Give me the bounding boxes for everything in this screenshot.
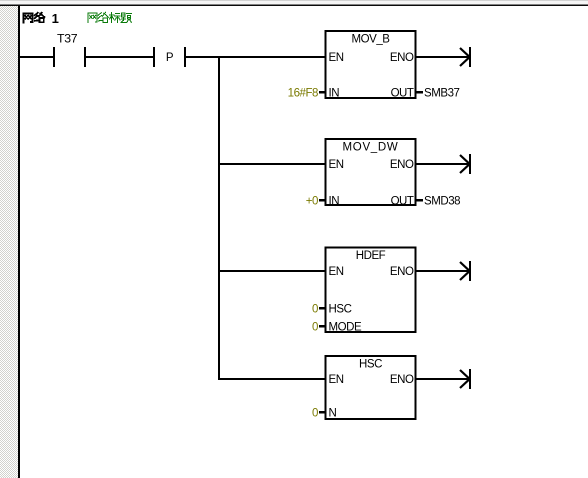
left power rail bbox=[18, 6, 20, 478]
svg-text:MOV_B: MOV_B bbox=[351, 33, 390, 45]
svg-text:P: P bbox=[166, 52, 174, 64]
svg-text:OUT: OUT bbox=[391, 195, 414, 207]
junction branch wire (vertical) bbox=[218, 56, 220, 380]
contact P (positive edge) bbox=[153, 47, 186, 67]
pin stub U4 N bbox=[319, 411, 325, 414]
svg-text:HSC: HSC bbox=[329, 303, 352, 315]
络 bbox=[35, 13, 38, 21]
svg-text:1: 1 bbox=[52, 11, 59, 26]
svg-text:ENO: ENO bbox=[390, 52, 414, 64]
wire: branch to HSC EN bbox=[220, 378, 325, 380]
block U2 MOV_DW bbox=[326, 139, 416, 207]
contact T37 bbox=[53, 32, 86, 67]
svg-text:MOV_DW: MOV_DW bbox=[343, 141, 399, 153]
value +0 on U2 IN bbox=[306, 195, 318, 207]
rung 4 continuation arrow bbox=[460, 369, 471, 389]
network header: 网络 1 (bold black) bbox=[23, 13, 44, 23]
value 0 on U3 HSC bbox=[312, 303, 318, 315]
block U3 HDEF bbox=[326, 248, 416, 334]
svg-text:0: 0 bbox=[312, 407, 318, 419]
wire: branch to HDEF EN bbox=[220, 270, 325, 272]
network title text: 网络标题 (green) bbox=[88, 12, 132, 22]
svg-text:ENO: ENO bbox=[390, 266, 414, 278]
value 0 on U3 MODE bbox=[312, 321, 318, 333]
svg-text:0: 0 bbox=[312, 321, 318, 333]
svg-text:OUT: OUT bbox=[391, 87, 414, 99]
wire: T37 to P contact bbox=[86, 56, 153, 58]
svg-text:SMB37: SMB37 bbox=[424, 87, 460, 99]
wire: U3 ENO to arrow bbox=[417, 270, 471, 272]
svg-text:0: 0 bbox=[312, 303, 318, 315]
svg-text:HDEF: HDEF bbox=[356, 250, 386, 262]
block U1 MOV_B bbox=[326, 31, 416, 99]
pin stub U3 HSC bbox=[319, 307, 325, 310]
svg-text:IN: IN bbox=[329, 87, 340, 99]
svg-text:HSC: HSC bbox=[359, 358, 382, 370]
operand SMB37 on U1 OUT bbox=[424, 87, 460, 99]
svg-text:+0: +0 bbox=[306, 195, 318, 207]
pin stub U1 OUT bbox=[417, 91, 424, 94]
rung 1 continuation arrow bbox=[460, 47, 471, 67]
pin stub U2 IN bbox=[319, 199, 325, 202]
rung 2 continuation arrow bbox=[460, 154, 471, 174]
pin stub U2 OUT bbox=[417, 199, 424, 202]
svg-text:EN: EN bbox=[329, 266, 344, 278]
svg-text:N: N bbox=[329, 407, 337, 419]
block U4 HSC bbox=[326, 356, 416, 419]
wire: U4 ENO to arrow bbox=[417, 378, 471, 380]
网 bbox=[23, 14, 32, 23]
wire: rail to contact T37 bbox=[20, 56, 53, 58]
rung 3 continuation arrow bbox=[460, 261, 471, 281]
value 0 on U4 N bbox=[312, 407, 318, 419]
网 bbox=[88, 13, 97, 22]
svg-text:ENO: ENO bbox=[390, 159, 414, 171]
svg-text:MODE: MODE bbox=[329, 321, 362, 333]
wire: branch to MOV_DW EN bbox=[220, 163, 325, 165]
题 bbox=[121, 13, 126, 23]
pin stub U3 MODE bbox=[319, 325, 325, 328]
wire: U1 ENO to arrow bbox=[417, 56, 471, 58]
network number 1 bbox=[52, 11, 59, 26]
svg-text:EN: EN bbox=[329, 159, 344, 171]
络 bbox=[98, 13, 101, 21]
wire: U2 ENO to arrow bbox=[417, 163, 471, 165]
svg-text:IN: IN bbox=[329, 195, 340, 207]
svg-text:T37: T37 bbox=[57, 32, 78, 46]
标 bbox=[109, 12, 114, 22]
wire: P contact to block MOV_B EN bbox=[186, 56, 325, 58]
pin stub U1 IN bbox=[319, 91, 325, 94]
svg-text:16#F8: 16#F8 bbox=[288, 87, 318, 99]
svg-text:SMD38: SMD38 bbox=[424, 195, 460, 207]
svg-text:EN: EN bbox=[329, 52, 344, 64]
svg-text:ENO: ENO bbox=[390, 374, 414, 386]
value 16#F8 on U1 IN bbox=[288, 87, 318, 99]
operand SMD38 on U2 OUT bbox=[424, 195, 460, 207]
svg-text:EN: EN bbox=[329, 374, 344, 386]
